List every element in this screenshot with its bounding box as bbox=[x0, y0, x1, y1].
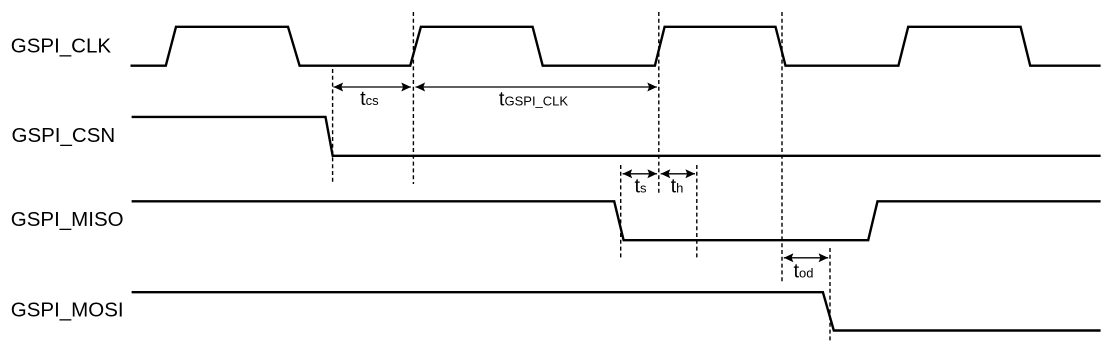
arrow tGSPI_CLK bbox=[416, 83, 657, 92]
svg-text:GSPI_CLK: GSPI_CLK bbox=[11, 34, 112, 57]
dashed guide D5 (hold end) bbox=[696, 165, 698, 258]
waveform GSPI_MOSI bbox=[132, 292, 1101, 330]
arrow tcs bbox=[334, 83, 411, 92]
waveform GSPI_MISO bbox=[132, 201, 1101, 240]
arrow th bbox=[661, 169, 695, 178]
waveform GSPI_CLK bbox=[131, 27, 1101, 66]
dashed guide D3 (MISO fall) bbox=[620, 165, 622, 259]
dashed guide D4 (clock rising edge 3) bbox=[658, 12, 660, 194]
svg-text:GSPI_MOSI: GSPI_MOSI bbox=[11, 299, 124, 322]
svg-text:GSPI_CSN: GSPI_CSN bbox=[12, 124, 116, 147]
arrow ts bbox=[623, 169, 657, 178]
waveform GSPI_CSN bbox=[132, 117, 1101, 156]
dashed guide D6 (clock falling edge 3) bbox=[781, 12, 783, 282]
arrow tod bbox=[784, 253, 828, 262]
dashed guide D2 (clock rising edge 2) bbox=[412, 12, 414, 184]
dashed guide D1 (CSN low point) bbox=[332, 69, 334, 184]
dashed guide D7 (MOSI fall) bbox=[829, 248, 831, 342]
svg-text:GSPI_MISO: GSPI_MISO bbox=[11, 208, 124, 231]
